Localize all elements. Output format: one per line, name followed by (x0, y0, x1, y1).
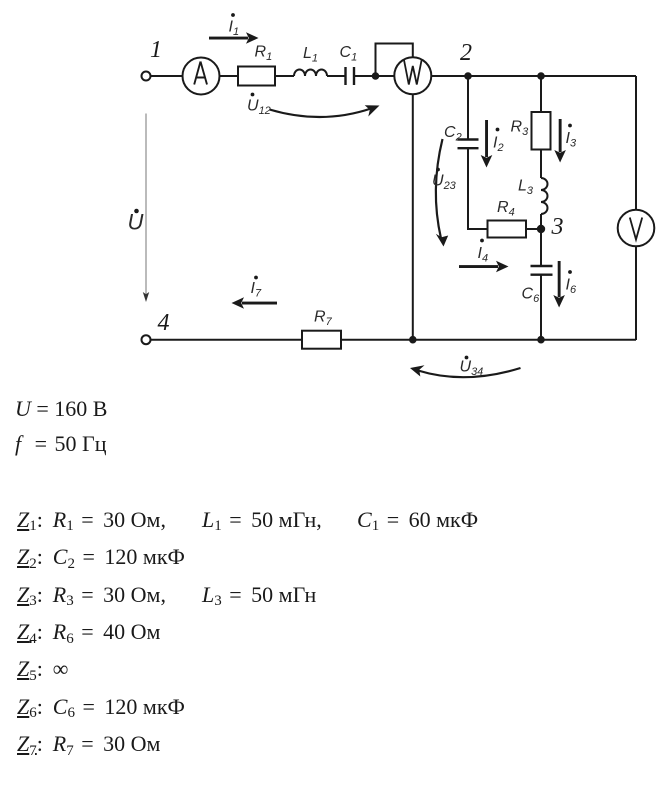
wire C6 to bottom wire (540, 275, 542, 340)
inductor L3 (541, 178, 548, 214)
label I6 (566, 270, 577, 296)
wire R3 to L3 (540, 150, 542, 179)
wire wattmeter bottom lead (412, 94, 414, 340)
capacitor C2 (458, 140, 479, 149)
voltage arrow U source (143, 114, 149, 303)
current arrow I7 (232, 297, 278, 309)
node 3 junction dot (537, 225, 545, 233)
wire voltmeter to bottom wire (635, 246, 637, 340)
label I1 (229, 13, 240, 38)
wire node2 to R3 (540, 76, 542, 112)
label U23 (432, 168, 457, 192)
ammeter A (183, 58, 220, 95)
label U34 (460, 356, 484, 378)
label I4 (478, 239, 489, 265)
junction dot bottom wattmeter lead (409, 336, 417, 344)
node 2 junction dot (464, 72, 472, 80)
wire L3 to node 3 (540, 214, 542, 229)
wire L1 to C1 (327, 75, 345, 77)
value line Z3 (17, 582, 166, 608)
wire node1 to ammeter (151, 75, 183, 77)
terminal node 4 (142, 335, 151, 344)
label I7 (251, 276, 262, 300)
current arrow I4 (459, 261, 509, 273)
wire ammeter to R1 (220, 75, 239, 77)
wire C1 to wattmeter (354, 75, 395, 77)
value line Z2 (17, 544, 185, 570)
wire wattmeter to node 2 and right corner (431, 75, 636, 77)
terminal node 1 (142, 72, 151, 81)
value f = 50 Hz (15, 431, 107, 457)
resistor R3 (532, 112, 551, 150)
label I3 (566, 124, 577, 150)
wattmeter W (394, 57, 431, 94)
value line Z1 (17, 507, 166, 533)
wire R1 to L1 (275, 75, 294, 77)
label I2 (493, 128, 504, 154)
value line Z5 (17, 656, 68, 682)
current arrow I1 (209, 32, 259, 44)
current arrow I3 (554, 119, 566, 163)
value U = 160 V (15, 396, 107, 422)
value line Z6 (17, 694, 185, 720)
voltage arc U23 (436, 139, 448, 247)
voltmeter V (618, 210, 655, 247)
current arrow I6 (553, 261, 565, 308)
label U source (128, 209, 144, 235)
wattmeter voltage-coil loop (376, 44, 413, 75)
value line Z7 (17, 731, 160, 757)
resistor R1 (238, 67, 275, 86)
junction dot before wattmeter (372, 72, 380, 80)
inductor L1 (294, 70, 327, 76)
voltage arc U34 (410, 365, 521, 377)
capacitor C1 (346, 67, 355, 85)
current arrow I2 (481, 120, 493, 168)
bottom wire R7 to right corner (341, 339, 636, 341)
wire R4 to node 3 (526, 228, 541, 230)
junction dot node2-R3 branch (537, 72, 545, 80)
wire C2 lower to R4 (468, 148, 488, 229)
junction dot bottom C6 lead (537, 336, 545, 344)
wire node 3 to C6 (540, 229, 542, 266)
resistor R4 (488, 221, 527, 238)
wire right side down to voltmeter (635, 76, 637, 210)
label U12 (247, 93, 271, 117)
bottom wire node4 to R7 (151, 339, 303, 341)
resistor R7 (302, 331, 341, 349)
value line Z4 (17, 619, 160, 645)
voltage arc U12 (270, 105, 380, 117)
capacitor C6 (531, 266, 553, 275)
wire C2 branch upper (467, 76, 469, 139)
